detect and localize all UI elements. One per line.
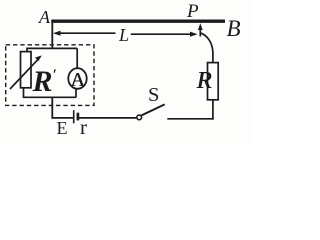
resistor R body	[208, 63, 219, 100]
wire: ammeter top connector	[76, 48, 78, 69]
wire: ammeter bottom connector	[75, 88, 77, 97]
dimension line left segment with left arrowhead	[59, 32, 116, 34]
label E (emf)	[57, 118, 68, 139]
wire: top horizontal inside box + rheostat top connector	[27, 48, 77, 51]
dashed instrument box	[6, 45, 94, 106]
slider arrow at P (points up to wire)	[199, 28, 201, 37]
switch S pivot circle	[137, 115, 142, 120]
rheostat R' body	[21, 52, 32, 88]
label A (left end of wire)	[39, 7, 50, 28]
label L (length dimension)	[119, 25, 129, 46]
label S (switch)	[148, 84, 159, 107]
label A (ammeter symbol letter)	[70, 69, 86, 92]
wire: battery to switch	[79, 117, 136, 119]
dimension line right segment with right arrowhead	[131, 33, 192, 35]
wire AB (resistance wire, thick)	[51, 20, 225, 23]
wire: left branch to battery	[52, 117, 73, 119]
label r (internal resistance)	[80, 115, 87, 140]
wire: rheostat bottom connector + bottom horizontal inside box	[24, 88, 77, 98]
label B (right end of wire)	[227, 16, 241, 42]
switch S blade	[141, 104, 165, 115]
battery long plate (E)	[73, 110, 75, 123]
label R' (rheostat)	[33, 65, 57, 99]
wire: curve from slider P down to resistor branch	[200, 33, 213, 63]
wire: bottom rail right (switch to resistor branch)	[167, 118, 213, 120]
wire: resistor R bottom down to bottom rail	[212, 100, 214, 120]
wire: vertical from A down into dashed box	[51, 20, 53, 49]
battery short thick plate	[77, 113, 80, 121]
rheostat diagonal arrow	[10, 59, 39, 89]
ammeter A circle	[68, 68, 86, 89]
label P (slider point)	[187, 1, 199, 23]
wire: vertical out of dashed box bottom	[51, 97, 53, 119]
label R (right resistor)	[197, 67, 212, 95]
